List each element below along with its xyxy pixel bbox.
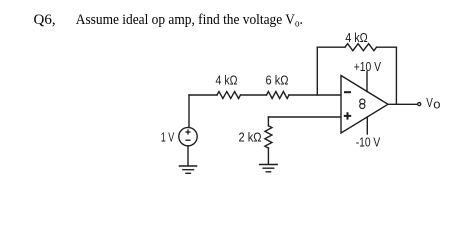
svg-text:Assume ideal op amp, find the: Assume ideal op amp, find the voltage Vo… — [76, 12, 303, 30]
node Vo terminal circle — [418, 103, 421, 106]
svg-text:4 kΩ: 4 kΩ — [345, 30, 368, 45]
resistor 6 kOhm — [267, 92, 290, 99]
op-amp plus input marker — [344, 112, 351, 119]
op-amp U1 triangle — [341, 76, 388, 134]
voltage source V1 circle — [179, 127, 197, 145]
wire: between 4k and 6k resistors — [241, 94, 267, 96]
resistor 4 kOhm feedback — [345, 44, 377, 51]
source minus marker — [185, 139, 190, 141]
resistor 2 kOhm — [265, 126, 272, 148]
svg-text:+10 V: +10 V — [354, 59, 382, 74]
wire: source to ground — [187, 146, 189, 165]
wire: op-amp output — [388, 103, 417, 105]
op-amp infinity gain symbol (rotated) — [360, 99, 365, 109]
wire: feedback right vertical leg — [395, 47, 397, 104]
wire: feedback top left segment — [317, 46, 345, 48]
wire: -10 V supply stub — [366, 117, 368, 134]
ground under source — [179, 166, 196, 173]
wire: 6k to op-amp inverting input — [289, 94, 341, 96]
svg-text:6 kΩ: 6 kΩ — [266, 73, 289, 88]
svg-text:o: o — [433, 97, 440, 112]
wire: feedback left vertical leg — [316, 47, 318, 95]
wire: main horizontal left segment — [189, 94, 217, 96]
wire: non-inverting input horizontal — [268, 116, 340, 118]
resistor 4 kOhm input — [217, 92, 241, 99]
wire: left vertical from node to source — [188, 95, 190, 128]
svg-text:V: V — [426, 95, 433, 110]
svg-text:-10 V: -10 V — [356, 134, 381, 149]
wire: feedback top right segment — [377, 46, 397, 48]
svg-text:1 V: 1 V — [161, 130, 175, 145]
wire: 2 kOhm to ground — [267, 148, 269, 164]
svg-text:4 kΩ: 4 kΩ — [216, 73, 238, 88]
op-amp minus input marker — [344, 91, 351, 93]
wire: vertical down to 2 kOhm — [267, 117, 269, 126]
wire: +10 V supply stub — [366, 72, 368, 92]
svg-text:2 kΩ: 2 kΩ — [239, 130, 262, 145]
ground under 2 kOhm — [260, 165, 278, 172]
svg-text:Q6,: Q6, — [34, 12, 56, 28]
source plus marker — [185, 129, 190, 134]
